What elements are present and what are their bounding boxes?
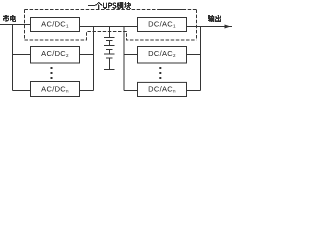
battery cell 1 long plate [104, 37, 115, 39]
wire output bus vertical [200, 27, 202, 91]
wire mains vertical bus [12, 25, 14, 91]
UPS module dashed boundary left [24, 10, 26, 41]
UPS module dashed boundary top [25, 9, 197, 11]
label 输出 (output) [208, 15, 221, 22]
inverter DC/AC1 box [138, 18, 187, 32]
label 一个UPS模块 (one UPS module) [88, 2, 131, 9]
rectifier AC/DC2 box [31, 47, 80, 64]
svg-text:DC/AC2: DC/AC2 [148, 49, 176, 58]
inverter DC/AC2 box [138, 47, 187, 64]
battery stub wire [109, 27, 111, 38]
label 市电 (mains) [3, 15, 16, 22]
wire DC/AC2 input [124, 54, 138, 56]
battery bottom wire [109, 58, 111, 70]
wire mains feed row1 [0, 24, 31, 26]
UPS module dashed boundary bottom with step [25, 32, 197, 41]
inverter DC/ACn box [138, 82, 187, 96]
wire right DC bus vertical [123, 27, 125, 91]
svg-text:DC/AC1: DC/AC1 [148, 20, 176, 29]
wire AC/DCn output [80, 90, 94, 92]
battery cell 2 long plate [104, 45, 115, 47]
svg-text:AC/DCn: AC/DCn [41, 85, 69, 94]
rectifier AC/DCn box [31, 82, 80, 97]
ellipsis dots right column [159, 67, 161, 69]
output arrowhead [225, 25, 231, 29]
wire mains feed row2 [13, 54, 31, 56]
wire DC/AC2 output [187, 54, 201, 56]
battery wire [109, 50, 111, 55]
wire mains feed row3 [13, 90, 31, 92]
wire DC/ACn input [124, 90, 138, 92]
rectifier AC/DC1 box [31, 18, 80, 32]
svg-text:DC/ACn: DC/ACn [148, 85, 176, 94]
wire output row1 to arrow [187, 26, 233, 28]
wire AC/DC2 output [80, 54, 94, 56]
battery end terminal plate [104, 69, 115, 71]
battery cell 2 short plate [106, 49, 113, 51]
battery cell 1 short plate [106, 40, 113, 42]
battery cell 3 long plate [104, 53, 115, 55]
wire DC link row1 [80, 26, 138, 28]
wire left DC bus vertical [93, 27, 95, 91]
battery cell 3 short plate [106, 57, 113, 59]
battery wire [109, 41, 111, 46]
svg-text:AC/DC1: AC/DC1 [41, 20, 69, 29]
ellipsis dots left column [51, 67, 53, 69]
UPS module dashed boundary right [196, 10, 198, 41]
svg-text:AC/DC2: AC/DC2 [41, 49, 69, 58]
wire DC/ACn output [187, 90, 201, 92]
UPS module dashed boundary top merged segment [160, 9, 185, 11]
